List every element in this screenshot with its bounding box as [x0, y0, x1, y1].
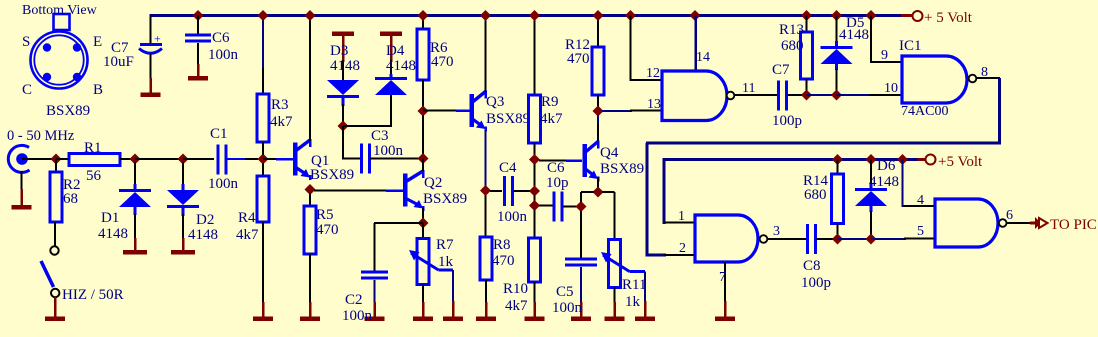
svg-text:4148: 4148 [839, 27, 869, 43]
svg-text:470: 470 [567, 51, 590, 67]
svg-text:14: 14 [696, 50, 710, 65]
nand gate IC2a [695, 215, 758, 262]
svg-text:BSX89: BSX89 [486, 111, 530, 127]
nand gate IC1b [662, 71, 727, 121]
wire R6 node down to C3 node [422, 115, 424, 155]
svg-text:C1: C1 [210, 126, 228, 142]
junction dot pin9 rail [866, 10, 877, 21]
capacitor C8 [806, 224, 809, 254]
svg-text:10uF: 10uF [103, 54, 134, 70]
junction dot D3/D4 node [338, 121, 349, 132]
svg-text:0 - 50 MHz: 0 - 50 MHz [7, 128, 75, 144]
svg-text:C: C [22, 82, 32, 98]
wire R14 node to D6 node [838, 238, 872, 240]
resistor R9 [534, 16, 536, 97]
junction dot pin12 rail [625, 10, 636, 21]
svg-text:R4: R4 [238, 210, 256, 226]
ground below R7 arrow [452, 301, 455, 317]
+5V terminal circle bottom [926, 155, 936, 165]
svg-text:100n: 100n [208, 47, 239, 63]
resistor R12 [597, 16, 599, 49]
wire emitter node to C2 [374, 222, 423, 224]
junction dot R13 bottom [801, 90, 812, 101]
trimmer R7 [422, 223, 424, 239]
junction dot D6 bottom [866, 234, 877, 245]
output bubble IC2b [999, 219, 1007, 227]
wire Q2 collector [422, 159, 424, 172]
svg-text:11: 11 [742, 81, 755, 96]
wire signal D1-D2 [135, 158, 183, 160]
svg-text:B: B [93, 82, 103, 98]
capacitor C5 [580, 211, 582, 258]
svg-text:4148: 4148 [98, 226, 128, 242]
resistor R6 [422, 16, 424, 31]
junction dot R9 bottom / Q4 base node [529, 154, 540, 165]
ground below D2 [182, 238, 185, 250]
junction dot Q2 collector node [418, 153, 429, 164]
wire C6 node up to Q4 emitter branch [580, 192, 582, 202]
svg-text:+ 5 Volt: + 5 Volt [924, 10, 973, 26]
resistor R14 [837, 160, 839, 176]
svg-text:74AC00: 74AC00 [901, 104, 948, 119]
wire R9 node down [534, 164, 536, 187]
wire node to D5 [807, 94, 834, 96]
resistor R2 [55, 159, 57, 173]
output bubble IC1a [969, 75, 977, 83]
wire Q3 emitter down [485, 130, 487, 187]
wire output 3 to C8 [767, 238, 806, 240]
svg-text:680: 680 [781, 38, 804, 54]
junction dot R12 bottom / pin13 node [593, 106, 604, 117]
svg-text:C6: C6 [212, 30, 230, 46]
svg-text:BSX89: BSX89 [46, 103, 90, 119]
output bubble IC1b [727, 92, 735, 100]
svg-text:C8: C8 [803, 258, 821, 274]
svg-text:R7: R7 [436, 237, 454, 253]
wire pin13 node to gate [602, 110, 632, 112]
junction dot Q3 collector rail [480, 10, 491, 21]
ground below pin7 [724, 301, 727, 317]
svg-text:100n: 100n [373, 143, 404, 159]
svg-text:470: 470 [316, 222, 339, 238]
svg-text:56: 56 [86, 168, 102, 184]
resistor R4 [262, 163, 264, 177]
svg-text:Q3: Q3 [486, 94, 504, 110]
svg-text:6: 6 [1006, 208, 1013, 223]
capacitor C2 [361, 271, 388, 274]
ground below C5 [580, 302, 583, 317]
wire Q3 base [423, 110, 458, 112]
transistor Q4 [582, 144, 587, 177]
svg-text:10: 10 [884, 81, 898, 96]
svg-text:100n: 100n [342, 308, 373, 324]
svg-text:C2: C2 [345, 292, 363, 308]
wire pin14 [694, 16, 697, 72]
nand gate IC2b [935, 199, 998, 247]
resistor R1 [56, 158, 70, 160]
wire Q2 emitter down [422, 208, 424, 220]
switch blade [41, 261, 54, 287]
junction dot R13 rail [801, 10, 812, 21]
ground below R11 arrow [644, 301, 647, 317]
wire +5V rail 2 [663, 158, 666, 224]
diode D5 [836, 16, 838, 44]
svg-text:D2: D2 [196, 212, 214, 228]
ground below C7 [149, 78, 152, 93]
capacitor C7 electrolytic [150, 16, 152, 45]
power tap above D3 [332, 32, 354, 37]
svg-text:E: E [93, 34, 102, 50]
junction dot R9 rail [529, 10, 540, 21]
wire Q4 collector [597, 115, 599, 125]
svg-text:4k7: 4k7 [270, 114, 293, 130]
svg-text:1k: 1k [625, 294, 641, 310]
wire Q1 collector to rail [309, 16, 311, 142]
resistor R3 [262, 16, 264, 71]
svg-text:+: + [154, 32, 161, 46]
resistor R8 [485, 195, 487, 238]
ground below R5 [309, 302, 312, 317]
svg-text:C5: C5 [556, 284, 574, 300]
wire D3 node down to C3 [342, 126, 344, 160]
wire pin1 from rail2 [664, 222, 695, 224]
ground below R4 [262, 302, 265, 317]
wire D6 node to pin5 [871, 238, 906, 240]
wire Q4 base [539, 160, 568, 162]
svg-text:BSX89: BSX89 [600, 161, 644, 177]
diode D6 [870, 160, 872, 186]
ground below R7 [422, 302, 425, 317]
+5V terminal circle top [913, 11, 923, 21]
ground below R10 [533, 302, 536, 317]
wire Q4 emitter down [597, 177, 599, 188]
output bubble IC2a [760, 235, 768, 243]
transistor bottom view symbol [31, 14, 88, 89]
diode D3 [342, 60, 344, 80]
junction dot C6 top [193, 10, 204, 21]
svg-text:HIZ / 50R: HIZ / 50R [62, 287, 124, 303]
diode D2 [182, 162, 184, 186]
wire D5 node to pin10 [837, 94, 872, 96]
svg-text:Bottom View: Bottom View [22, 3, 98, 18]
resistor R10 [534, 210, 536, 239]
capacitor C3 [360, 144, 363, 174]
svg-text:4k7: 4k7 [505, 298, 528, 314]
svg-text:4k7: 4k7 [236, 227, 259, 243]
junction dot R3 rail [258, 10, 269, 21]
svg-text:C3: C3 [371, 128, 389, 144]
ground below switch [54, 297, 57, 317]
svg-text:D3: D3 [330, 43, 348, 59]
junction dot R3/R4 node [258, 154, 269, 165]
svg-text:1: 1 [678, 209, 685, 224]
svg-text:100n: 100n [497, 209, 528, 225]
wire D3 node to D4 [343, 125, 392, 127]
capacitor C6 100n [197, 16, 199, 35]
junction dot R14 bottom [832, 234, 843, 245]
transistor Q2 [403, 174, 408, 207]
junction dot R6 rail [418, 10, 429, 21]
svg-text:68: 68 [63, 191, 78, 207]
BNC connector J1 [8, 145, 29, 172]
wire output 8 feedback [977, 77, 1001, 79]
ground below D1 [134, 238, 137, 250]
svg-text:470: 470 [431, 54, 454, 70]
svg-text:470: 470 [492, 253, 515, 269]
svg-text:R3: R3 [271, 97, 289, 113]
ground below R8 [485, 302, 488, 317]
svg-text:R11: R11 [622, 277, 646, 293]
wire Q4 emitter node left branch [581, 191, 594, 193]
wire C1 to Q1 base [263, 158, 278, 160]
svg-text:S: S [22, 34, 30, 50]
svg-text:4k7: 4k7 [540, 111, 563, 127]
svg-text:100p: 100p [801, 275, 831, 291]
svg-text:IC1: IC1 [899, 38, 922, 54]
wire signal D2-C1 [183, 158, 214, 160]
junction dot R2 top [51, 154, 62, 165]
svg-text:4: 4 [917, 193, 924, 208]
diode D1 [134, 162, 136, 184]
svg-text:100p: 100p [772, 113, 802, 129]
capacitor C4 [490, 190, 502, 192]
junction dot Q2 emitter node [418, 218, 429, 229]
svg-text:9: 9 [881, 48, 888, 63]
wire rail2 red stub [918, 158, 927, 161]
junction dot R14 rail2 [832, 154, 843, 165]
trimmer R11 [609, 240, 621, 288]
svg-text:4148: 4148 [869, 174, 899, 190]
wire BNC shield down [21, 171, 23, 191]
junction dot C6/C5 node [576, 201, 587, 212]
svg-text:100n: 100n [552, 300, 583, 316]
svg-text:2: 2 [679, 241, 686, 256]
ground below R11 [613, 302, 616, 317]
svg-text:+5 Volt: +5 Volt [938, 154, 983, 170]
junction dot C4 right node [529, 186, 540, 197]
resistor R5 [309, 193, 311, 207]
junction dot R12 rail [593, 10, 604, 21]
wire +5V top rail [150, 14, 902, 17]
capacitor C1 [217, 145, 220, 175]
svg-text:7: 7 [719, 270, 726, 285]
svg-text:13: 13 [647, 97, 661, 112]
svg-text:10p: 10p [546, 175, 569, 191]
junction dot R6 bottom / Q3 base node [418, 106, 429, 117]
svg-text:D4: D4 [386, 43, 405, 59]
capacitor C7 100p [777, 81, 780, 111]
ground below C2 [373, 302, 376, 317]
svg-text:4148: 4148 [330, 58, 360, 74]
svg-text:4148: 4148 [188, 227, 218, 243]
wire pin12 drop [630, 16, 632, 82]
svg-text:4148: 4148 [386, 58, 416, 74]
junction dot D2 [178, 154, 189, 165]
svg-text:BSX89: BSX89 [310, 167, 354, 183]
wire output 11 to C7 [735, 94, 778, 96]
svg-text:D6: D6 [877, 158, 896, 174]
svg-text:680: 680 [804, 187, 827, 203]
svg-text:R8: R8 [493, 237, 511, 253]
junction dot pin4 rail2 [897, 154, 908, 165]
wire pin9 drop [870, 16, 872, 64]
wire Q3 collector to rail [485, 16, 487, 93]
transistor Q1 [293, 143, 298, 176]
svg-text:C7: C7 [772, 62, 790, 78]
switch HIZ/50R terminal top [50, 246, 58, 254]
switch terminal bottom [51, 289, 59, 297]
svg-text:R5: R5 [316, 207, 334, 223]
junction dot D5 rail [831, 10, 842, 21]
junction dot Q1 collector rail [305, 10, 316, 21]
ground below C6 [197, 64, 200, 76]
junction dot Q4 emitter node [593, 187, 604, 198]
svg-text:R9: R9 [541, 94, 559, 110]
transistor Q3 [469, 94, 474, 127]
junction dot Q3 emitter node [480, 185, 491, 196]
nand gate IC1a [902, 56, 967, 103]
svg-text:100n: 100n [208, 176, 239, 192]
wire top rail red stub [901, 14, 913, 17]
resistor R13 [806, 16, 808, 34]
wire C4 node down [534, 195, 536, 202]
wire Q4 emitter node right branch to R11 [602, 191, 615, 193]
diode D4 [390, 60, 392, 78]
power tap above D4 [380, 32, 402, 37]
junction dot D1 [130, 154, 141, 165]
svg-text:1k: 1k [438, 254, 454, 270]
svg-text:TO PIC: TO PIC [1050, 217, 1097, 233]
svg-text:R13: R13 [779, 22, 804, 38]
svg-text:3: 3 [773, 224, 780, 239]
junction dot D5 bottom [831, 90, 842, 101]
svg-text:R10: R10 [503, 281, 528, 297]
ground BNC [20, 189, 23, 205]
svg-text:12: 12 [646, 66, 660, 81]
svg-text:BSX89: BSX89 [423, 191, 467, 207]
svg-text:D1: D1 [101, 210, 119, 226]
capacitor C6 10p [539, 205, 553, 207]
junction dot C6 left node [529, 200, 540, 211]
svg-text:5: 5 [917, 224, 924, 239]
junction dot pin14 rail [690, 10, 701, 21]
svg-text:C6: C6 [547, 160, 565, 176]
svg-text:Q4: Q4 [600, 145, 619, 161]
junction dot Q1 emitter [305, 184, 316, 195]
svg-text:C4: C4 [499, 160, 517, 176]
TO PIC arrow [1035, 217, 1041, 229]
wire Q1 emitter to Q2 base [314, 190, 388, 192]
wire pin7 ground [724, 262, 726, 303]
wire pin4 drop [902, 160, 904, 208]
junction dot D6 rail2 [866, 154, 877, 165]
svg-text:Q2: Q2 [424, 175, 442, 191]
wire output 6 [1007, 222, 1033, 224]
